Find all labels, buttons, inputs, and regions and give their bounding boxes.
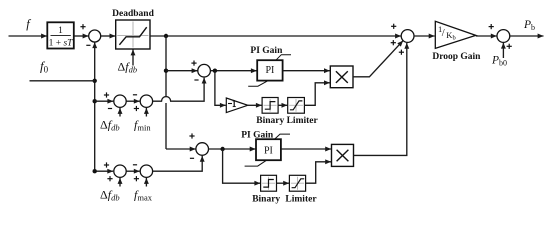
- deadband block: [116, 20, 150, 49]
- wire vertical from main junction: [166, 36, 196, 151]
- sign + B2: [189, 133, 194, 138]
- sign - C11: [108, 108, 112, 110]
- wire -1 to limiter1a: [248, 103, 262, 108]
- sign + C11: [104, 92, 109, 97]
- wire fmin arrow: [144, 108, 149, 117]
- summing junction S3: [497, 30, 510, 43]
- wire TF to sum S1: [74, 34, 89, 39]
- wire fmax arrow: [144, 178, 149, 187]
- saturation block L2b: [289, 175, 305, 191]
- sign + S3 left: [489, 24, 494, 29]
- summing junction B2: [196, 143, 209, 156]
- wire f0 input: [30, 80, 95, 82]
- sign + S2 left: [391, 24, 396, 29]
- node B1 output: [213, 69, 217, 73]
- wire f0 column: [92, 42, 113, 174]
- summing junction S1: [89, 30, 101, 42]
- wire PI1 to X1: [283, 68, 330, 73]
- wire X2 out up to S2 bottom: [354, 43, 410, 155]
- sign - B1: [194, 79, 198, 81]
- wire L2a to L2b: [277, 181, 290, 186]
- node f0 junction: [93, 79, 97, 83]
- wire delta fdb arrow row2: [118, 178, 123, 187]
- wire L1a to L1b: [278, 103, 287, 108]
- wire deadband bottom input arrow: [131, 50, 136, 66]
- sign - B2: [190, 157, 194, 159]
- svg-text:Δfdb: Δfdb: [100, 118, 120, 133]
- wire Pb0 input: [501, 43, 506, 58]
- sign + C12: [134, 106, 139, 111]
- svg-text:PI: PI: [264, 145, 273, 156]
- sign - C22: [133, 164, 137, 166]
- multiplier X2: [332, 144, 354, 166]
- node row2 corner junction: [93, 169, 97, 173]
- summing junction S2: [401, 30, 414, 43]
- wire X1 out diagonal to S2: [353, 39, 405, 77]
- wire down to limiter2: [223, 149, 261, 186]
- node branch to B1: [164, 69, 168, 73]
- saturation block L1b: [288, 98, 305, 114]
- summing junction C21: [114, 165, 126, 177]
- summing junction C22: [140, 165, 152, 177]
- wire row2 to B2 bottom: [153, 156, 205, 171]
- wire B1 to PI1: [210, 68, 256, 73]
- svg-text:fmax: fmax: [134, 188, 153, 203]
- relay block L2a: [261, 175, 277, 191]
- PI block 1: [248, 55, 291, 86]
- multiplier X1: [330, 66, 353, 88]
- svg-text:PI Gain: PI Gain: [250, 46, 283, 56]
- svg-text:Binary: Binary: [252, 195, 280, 205]
- sign + at S1: [80, 24, 85, 29]
- svg-text:PI Gain: PI Gain: [241, 131, 274, 141]
- sign + C22: [134, 176, 139, 181]
- wire PI2 to X2: [281, 147, 331, 152]
- wire L2b up to X2: [306, 159, 332, 183]
- sign - C12: [133, 94, 137, 96]
- svg-text:Δfdb: Δfdb: [118, 60, 138, 75]
- wire C11 to C12: [126, 99, 140, 104]
- wire L1b up to X1: [304, 80, 330, 105]
- svg-text:Pb: Pb: [523, 19, 535, 32]
- wire main line deadband to sum S2: [150, 34, 401, 39]
- wire droop to S3: [476, 34, 497, 39]
- sign + S2 diag: [391, 40, 396, 45]
- summing junction C11: [114, 95, 126, 107]
- svg-text:f0: f0: [40, 59, 49, 75]
- svg-text:/: /: [442, 28, 445, 39]
- wire S1 to deadband: [101, 34, 116, 39]
- node main line junction: [164, 34, 168, 38]
- svg-text:PI: PI: [265, 65, 274, 76]
- sign + S2 bottom: [399, 50, 404, 55]
- relay block L1a: [262, 98, 278, 114]
- wire to sum B1: [166, 68, 198, 73]
- summing junction C12: [140, 95, 152, 107]
- wire down to -1 gain: [215, 71, 226, 108]
- sign + C21 top: [104, 162, 109, 167]
- wire delta fdb arrow row1: [118, 108, 123, 117]
- wire B2 to PI2: [209, 147, 256, 152]
- wire row1 with hop to B1 bottom: [153, 78, 207, 102]
- sign + B1: [191, 61, 196, 66]
- svg-text:fmin: fmin: [134, 118, 151, 133]
- PI block 2: [245, 134, 290, 166]
- transfer function block 1/(1+sT): [47, 22, 74, 48]
- sign + C21 bottom: [107, 176, 112, 181]
- wire output Pb: [510, 34, 544, 39]
- svg-text:Droop Gain: Droop Gain: [432, 52, 481, 62]
- wire f input: [9, 34, 48, 39]
- sign + S3 bottom: [507, 44, 512, 49]
- droop gain triangle 1/Kb: [435, 21, 476, 48]
- svg-text:f: f: [26, 17, 31, 31]
- svg-text:Deadband: Deadband: [112, 9, 154, 19]
- node row1 junction: [93, 99, 97, 103]
- summing junction B1: [198, 64, 211, 77]
- wire C21 to C22: [126, 169, 140, 174]
- node B2 output: [220, 147, 224, 151]
- svg-text:Binary Limiter: Binary Limiter: [256, 116, 318, 126]
- svg-text:Pb0: Pb0: [491, 55, 507, 68]
- gain -1 triangle: [226, 98, 248, 113]
- sign - at S1: [86, 44, 90, 46]
- wire S2 to droop triangle: [414, 34, 435, 39]
- svg-text:1: 1: [58, 26, 63, 36]
- svg-text:Limiter: Limiter: [285, 195, 317, 205]
- wire to row1 circle C11: [95, 99, 114, 104]
- svg-text:1 + sT: 1 + sT: [49, 39, 74, 49]
- svg-text:Δfdb: Δfdb: [100, 188, 120, 203]
